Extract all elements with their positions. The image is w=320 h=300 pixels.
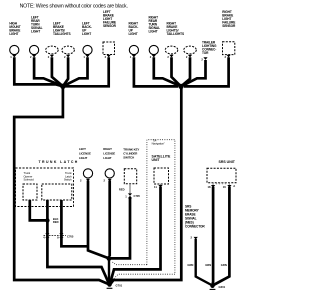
terminal arrow left back-up (85, 55, 89, 58)
junction J3 (107, 256, 112, 261)
svg-text:RIGHTBACK-UPLIGHT: RIGHTBACK-UPLIGHT (129, 22, 139, 36)
left license light (83, 169, 92, 178)
arrow srs 18 (211, 185, 215, 188)
svg-text:G601: G601 (219, 285, 226, 289)
wire right back-up to J2 (134, 57, 178, 86)
left back-up light (83, 45, 92, 54)
svg-text:GRN: GRN (221, 263, 227, 267)
svg-text:RED: RED (119, 187, 125, 191)
wire right rear turn to J2 (154, 57, 181, 86)
svg-text:TRUNK LATCH: TRUNK LATCH (39, 160, 79, 164)
srs unit box (207, 168, 236, 183)
wire srs 18 to G601 (211, 187, 214, 285)
svg-text:G701: G701 (116, 284, 123, 288)
trunk opener solenoid box (23, 184, 37, 200)
svg-text:GRN: GRN (205, 263, 211, 267)
wire left brake bulb2 to J1 (63, 57, 68, 86)
left brake light/taillight bulb 2 (62, 46, 75, 54)
connector C705 trunk latch dashed line (44, 234, 67, 236)
terminal arrow high mount (12, 55, 16, 58)
wire trunk key to J3 (111, 198, 131, 259)
trunk key cylinder switch box (124, 169, 136, 184)
right brake light/taillight bulb 2 (184, 46, 197, 54)
wire left license to J3 (88, 181, 109, 259)
junction trunk wires (45, 218, 49, 222)
svg-text:BLKRED: BLKRED (53, 217, 59, 224)
wire left rear turn to J1 (34, 57, 63, 86)
svg-text:TrunkLatchSwitch: TrunkLatchSwitch (64, 171, 72, 181)
wire right license to J3 (108, 181, 111, 257)
svg-text:GRN: GRN (187, 263, 193, 267)
dotted lead to J3 (112, 261, 147, 264)
svg-text:11: 11 (154, 185, 157, 189)
terminal arrow left sensor (107, 55, 111, 58)
terminal arrow right brake bulb2 (188, 55, 192, 58)
wire right brake bulb1 to J2 (172, 57, 182, 86)
right brake light failure sensor (223, 42, 235, 55)
trunk key pin stub thin wire (129, 184, 131, 196)
arrow srs 16 (227, 185, 231, 188)
C705 bowtie pin1 trunk key (128, 193, 132, 198)
C705 bowtie pin4 (45, 233, 49, 238)
terminal arrow left brake bulb2 (66, 55, 70, 58)
wire latch R to license wire (61, 200, 87, 246)
svg-text:NOTE: Wires shown without colo: NOTE: Wires shown without color codes ar… (20, 4, 128, 10)
C705 bowtie pin9 (59, 233, 63, 238)
terminal arrow trailer connector (203, 57, 207, 60)
trunk latch switch box (42, 184, 72, 200)
left brake light/taillight bulb 1 (46, 46, 59, 54)
svg-text:C705: C705 (134, 194, 141, 198)
satellite unit box (154, 168, 169, 184)
trunk latch box (16, 168, 74, 207)
left rear turn signal light (29, 45, 38, 54)
svg-text:SRS UNIT: SRS UNIT (219, 160, 236, 164)
junction J1 (60, 84, 65, 89)
wire J1 to ground G701 (main left run) (14, 86, 109, 284)
wire latch L / solenoid junction down to ground G701 (47, 200, 109, 284)
wire trailer connector to J2 (181, 60, 206, 86)
svg-text:16: 16 (223, 185, 226, 189)
right brake light/taillight bulb 1 (165, 46, 178, 54)
svg-text:18: 18 (208, 185, 211, 189)
04 navigation dotted box (147, 140, 175, 275)
right license light (105, 169, 114, 178)
junction J2 (178, 84, 183, 89)
ground G601 (210, 284, 214, 288)
wire J2 down to ground G701 (main right run) (110, 86, 181, 284)
wire satellite to ground G701 (110, 187, 161, 284)
terminal arrow right brake bulb1 (169, 55, 173, 58)
svg-text:A: A (233, 184, 235, 188)
wire right brake bulb2 to J2 (181, 57, 190, 86)
arrow left license (86, 179, 90, 182)
satellite pin stub (160, 184, 162, 187)
arrow satellite (158, 185, 162, 188)
right rear turn signal light (149, 45, 158, 54)
right back-up light (129, 45, 138, 54)
srs pin stubs (213, 183, 229, 185)
wire left sensor to J1 (65, 57, 109, 86)
wire solenoid to junction (30, 200, 46, 220)
svg-text:C705: C705 (67, 234, 74, 238)
left brake light failure sensor (103, 42, 115, 55)
terminal arrow left rear turn (32, 55, 36, 58)
wire J3 to G701 (108, 258, 110, 283)
high mount brake light (10, 45, 19, 54)
wire srs 16 to G601 (214, 187, 230, 285)
terminal arrow right back-up (132, 55, 136, 58)
wire mes connector to G601 (196, 239, 212, 285)
arrow mes (194, 237, 198, 240)
terminal arrow right rear turn (152, 55, 156, 58)
wire left back-up to J1 (63, 57, 88, 86)
arrow right license (108, 179, 112, 182)
wire high mount to J1 (14, 57, 63, 86)
terminal arrow right sensor (227, 55, 231, 58)
wire right sensor to J2 (184, 57, 229, 86)
dotted lead to G701 (111, 274, 175, 281)
ground G701 (107, 282, 111, 286)
terminal arrow left brake bulb1 (50, 55, 54, 58)
wire left brake bulb1 to J1 (52, 57, 63, 86)
